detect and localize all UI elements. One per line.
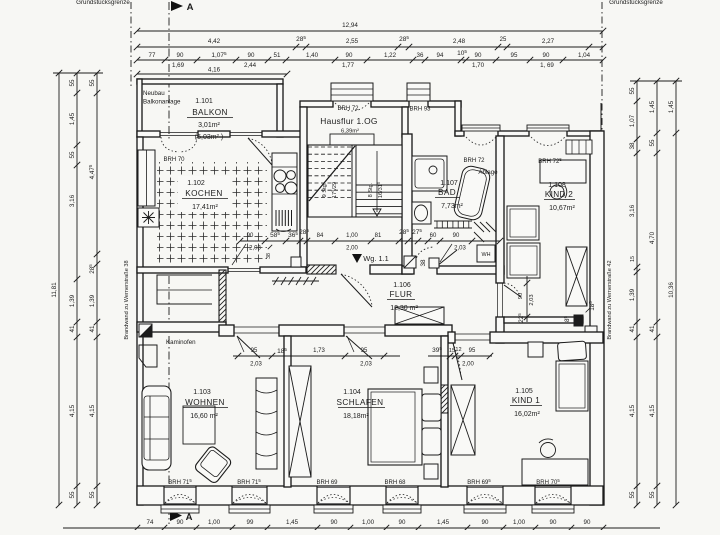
bad washing machine ticks (474, 222, 484, 232)
svg-text:1, 69: 1, 69 (540, 62, 554, 69)
svg-text:A: A (186, 512, 193, 523)
shaft box with diagonal (404, 256, 416, 268)
svg-text:1.105: 1.105 (515, 388, 533, 395)
svg-text:12,94: 12,94 (342, 22, 358, 29)
svg-text:55: 55 (649, 139, 656, 147)
svg-text:BRH 725: BRH 725 (538, 157, 562, 165)
svg-text:1,40: 1,40 (306, 52, 319, 59)
shaft box bottom right (585, 326, 597, 336)
svg-text:95: 95 (469, 348, 476, 354)
svg-text:1,69: 1,69 (172, 62, 185, 69)
balcony right wall (277, 84, 283, 137)
svg-text:2,00: 2,00 (462, 362, 474, 368)
svg-text:55: 55 (69, 79, 76, 87)
svg-text:BRH 72: BRH 72 (337, 106, 359, 112)
svg-text:Ablage: Ablage (478, 169, 498, 176)
bottom window 3 outer sill (314, 505, 353, 513)
svg-text:81: 81 (375, 233, 382, 239)
kitchen label backing (178, 176, 230, 212)
kind2 wardrobe (566, 247, 587, 306)
bottom window 4 swing arcs (387, 495, 417, 504)
right exterior wall (590, 131, 604, 505)
svg-text:74: 74 (147, 519, 154, 526)
svg-text:38: 38 (266, 253, 272, 259)
svg-text:11,81: 11,81 (51, 282, 58, 298)
svg-text:90: 90 (346, 52, 353, 59)
svg-text:90: 90 (248, 52, 255, 59)
svg-text:84: 84 (317, 233, 324, 239)
schlafen wardrobe (289, 366, 311, 477)
svg-text:9 Stg.: 9 Stg. (322, 182, 328, 197)
svg-text:3,16: 3,16 (69, 194, 76, 207)
svg-text:1.101: 1.101 (195, 98, 213, 105)
svg-text:1.107: 1.107 (440, 180, 458, 187)
bad bottom wall segment 2 (437, 266, 504, 274)
svg-text:SCHLAFEN: SCHLAFEN (337, 398, 384, 407)
wohnen table (183, 406, 215, 444)
svg-text:41: 41 (649, 325, 656, 333)
bottom window 6 opening (535, 486, 571, 505)
svg-text:10,36: 10,36 (668, 282, 675, 298)
flur bottom wall segment 2 (279, 325, 344, 336)
flur bottom wall segment 3 (385, 325, 452, 336)
interior dimension line row (240, 240, 500, 242)
svg-text:4,15: 4,15 (89, 404, 96, 417)
svg-text:4,15: 4,15 (629, 404, 636, 417)
kind2 desk (540, 160, 586, 183)
bottom window 5 outer sill (464, 505, 506, 513)
svg-text:1.106: 1.106 (393, 282, 411, 289)
wall kitchen-hausflur (300, 107, 307, 267)
svg-text:1.108: 1.108 (548, 182, 566, 189)
hall bottom wall (137, 322, 226, 332)
svg-text:3,01m²: 3,01m² (198, 122, 220, 129)
wall hausflur-bad upper (402, 107, 408, 137)
svg-text:90: 90 (482, 519, 489, 526)
schlafen pillows (422, 394, 441, 421)
svg-text:55: 55 (629, 491, 636, 499)
flur doormat with cross (395, 307, 444, 324)
svg-text:1,39: 1,39 (89, 294, 96, 307)
svg-text:41: 41 (89, 325, 96, 333)
bottom window 3 opening (317, 486, 350, 505)
svg-text:Balkonanlage: Balkonanlage (143, 99, 181, 106)
svg-text:2,03: 2,03 (360, 362, 372, 368)
svg-text:55: 55 (89, 79, 96, 87)
svg-text:90: 90 (453, 233, 460, 239)
svg-text:Grundstücksgrenze: Grundstücksgrenze (609, 0, 663, 6)
wall hausflur-bad (402, 134, 412, 274)
svg-text:18,18m²: 18,18m² (343, 413, 369, 420)
svg-text:55: 55 (69, 151, 76, 159)
schlafen nightstand top (424, 367, 438, 383)
balcony top wall (137, 79, 283, 84)
kind1 desk (522, 459, 588, 485)
wall wohnen-schlafen (284, 336, 291, 487)
bad window sill (462, 125, 500, 131)
svg-text:BRH 695: BRH 695 (467, 478, 491, 486)
svg-text:Wg. 1.1: Wg. 1.1 (363, 254, 388, 263)
svg-text:BRH 715: BRH 715 (237, 478, 261, 486)
kind2 chair (550, 185, 564, 199)
kind1 nightstand (528, 342, 543, 357)
svg-text:1,45: 1,45 (649, 100, 656, 113)
kitchen dim backing (238, 230, 268, 252)
door threshold flur-schlafen (344, 326, 385, 328)
staircase outline (308, 145, 402, 217)
svg-text:25: 25 (500, 37, 507, 43)
shaft box 2 (429, 258, 439, 268)
bottom window 3 swing arcs (318, 495, 349, 504)
svg-text:95: 95 (361, 348, 368, 354)
svg-text:95: 95 (511, 52, 518, 59)
kaminofen symbol (139, 324, 152, 337)
svg-text:2,03: 2,03 (529, 294, 535, 305)
door threshold flur-kind1 (455, 333, 490, 335)
svg-text:BALKON: BALKON (192, 108, 228, 117)
leader bad door (440, 244, 452, 262)
left dimension chain middle (76, 73, 78, 505)
svg-text:4,16: 4,16 (208, 67, 221, 74)
svg-text:BRH 72: BRH 72 (463, 158, 485, 164)
svg-text:KOCHEN: KOCHEN (185, 189, 222, 198)
svg-text:15: 15 (630, 256, 636, 262)
svg-text:(6,03m² ): (6,03m² ) (195, 134, 223, 141)
kind1 top wall left stub (448, 332, 455, 343)
svg-text:Hausflur 1.OG: Hausflur 1.OG (320, 116, 377, 126)
svg-text:BRH 68: BRH 68 (384, 480, 406, 486)
svg-text:16,60 m²: 16,60 m² (190, 413, 218, 420)
kitchen counter (272, 153, 297, 231)
svg-text:1,00: 1,00 (346, 233, 358, 239)
svg-text:12: 12 (455, 347, 461, 353)
svg-text:90: 90 (177, 519, 184, 526)
svg-text:90: 90 (543, 52, 550, 59)
hausflur facade wall segment 3 (428, 101, 461, 107)
left dimension chain outer 11,81 (58, 73, 60, 505)
svg-text:175/29: 175/29 (330, 182, 338, 198)
svg-text:90: 90 (550, 519, 557, 526)
schlafen dresser (256, 378, 277, 469)
kind2 bottom wall (504, 317, 583, 323)
bottom window 2 outer sill (229, 505, 270, 513)
svg-text:38: 38 (629, 142, 636, 150)
bottom dimension chain (63, 527, 660, 529)
svg-text:4,15: 4,15 (69, 404, 76, 417)
svg-text:Brandwand zu Wernerstraße 42: Brandwand zu Wernerstraße 42 (607, 260, 613, 339)
wohnen armchair (194, 445, 233, 484)
svg-text:BRH 93: BRH 93 (409, 107, 431, 113)
svg-text:1,45: 1,45 (668, 100, 675, 113)
svg-text:7,73m²: 7,73m² (441, 203, 463, 210)
left exterior wall (137, 137, 143, 505)
svg-text:90: 90 (177, 52, 184, 59)
svg-text:KIND 2: KIND 2 (545, 190, 573, 199)
bottom window 2 opening (232, 486, 267, 505)
section marker A top (171, 1, 183, 11)
svg-text:BRH 70: BRH 70 (163, 157, 185, 163)
wohnen door leaf (237, 336, 260, 358)
svg-text:4,70: 4,70 (649, 231, 656, 244)
right dimension chain inner (636, 81, 638, 505)
bottom window 1 swing arcs (165, 495, 195, 504)
wohnen sofa (142, 386, 171, 470)
svg-text:2,03: 2,03 (250, 362, 262, 368)
leader kitchen door (232, 244, 246, 265)
svg-text:6,39m²: 6,39m² (341, 129, 359, 135)
bad towel radiator (434, 220, 472, 222)
svg-text:Neubau: Neubau (143, 90, 165, 97)
kitchen tile floor pattern (157, 162, 267, 264)
svg-text:41: 41 (629, 325, 636, 333)
bottom window 6 outer sill (532, 505, 574, 513)
hausflur window bay B (407, 83, 430, 101)
stair entry wall hatched (307, 265, 336, 274)
svg-text:FLUR: FLUR (390, 290, 413, 299)
svg-text:41: 41 (69, 325, 76, 333)
door dims flur-kind1 (428, 355, 492, 357)
svg-text:WH: WH (482, 252, 491, 258)
bottom exterior wall (137, 486, 603, 505)
kind2 bottom wall stub filled (574, 315, 583, 326)
property boundary line right (601, 2, 603, 133)
svg-text:55: 55 (69, 491, 76, 499)
svg-text:1,73: 1,73 (313, 348, 325, 354)
balcony door 2 leaf (248, 138, 272, 165)
svg-text:BAD: BAD (438, 188, 456, 197)
svg-text:90: 90 (518, 293, 524, 299)
stair upper landing outline (330, 134, 374, 147)
bad shower (412, 156, 447, 191)
svg-text:99: 99 (247, 519, 254, 526)
right dimension chain outer 10,36 (675, 81, 677, 505)
svg-text:94: 94 (437, 52, 444, 59)
svg-text:90: 90 (331, 519, 338, 526)
svg-text:1,45: 1,45 (69, 112, 76, 125)
kind2 door leaf (504, 285, 521, 297)
left dimension top connector (53, 72, 103, 74)
facade step wall right of hausflur (455, 101, 461, 136)
svg-text:1,00: 1,00 (362, 519, 375, 526)
section line A-A vertical (168, 2, 170, 140)
door dims flur-wohnen (233, 355, 292, 357)
staircase right flight treads (356, 184, 402, 186)
staircase left flight dashed treads (308, 146, 352, 148)
flur bottom wall segment 1 (219, 325, 234, 336)
svg-text:36: 36 (417, 52, 424, 59)
right facade wall segment 1 (455, 131, 464, 136)
svg-text:1.103: 1.103 (193, 389, 211, 396)
hall closet (157, 275, 212, 304)
svg-text:1,00: 1,00 (208, 519, 221, 526)
schlafen nightstand bottom (424, 464, 438, 479)
kind1 door leaf (453, 343, 462, 380)
svg-text:4,42: 4,42 (208, 38, 221, 45)
svg-text:55: 55 (89, 491, 96, 499)
kind1 wardrobe (451, 385, 475, 455)
right exterior wall upper thin (600, 103, 602, 133)
svg-text:BRH 715: BRH 715 (168, 478, 192, 486)
kitchen left closet (138, 150, 155, 206)
kind1 top wall (490, 332, 603, 343)
door dims flur-schlafen (292, 355, 400, 357)
kitchen radiator (275, 210, 277, 226)
svg-text:2,55: 2,55 (346, 38, 359, 45)
svg-text:90: 90 (399, 519, 406, 526)
svg-text:BRH 69: BRH 69 (316, 480, 338, 486)
kitchen shaft box (291, 257, 301, 267)
svg-text:10,67m²: 10,67m² (549, 205, 575, 212)
svg-text:4,15: 4,15 (649, 404, 656, 417)
kind1 bed (556, 361, 588, 411)
bad bathtub (453, 165, 492, 222)
svg-text:1,77: 1,77 (342, 62, 355, 69)
svg-text:1,39: 1,39 (69, 294, 76, 307)
svg-text:1,22: 1,22 (384, 52, 397, 59)
staircase center rail (351, 145, 353, 217)
right dimension chain middle (656, 81, 658, 505)
svg-text:60: 60 (430, 233, 437, 239)
kind2 bed (507, 206, 539, 240)
kaminofen chimney (139, 345, 157, 367)
svg-text:1,45: 1,45 (437, 519, 450, 526)
svg-text:Brandwand zu Wernerstraße 38: Brandwand zu Wernerstraße 38 (124, 260, 130, 339)
svg-text:8 Stg.: 8 Stg. (368, 182, 374, 197)
kitchen bottom wall segment 1 (137, 267, 228, 273)
kitchen facade wall segment 2 (198, 131, 230, 137)
bad sink (412, 202, 431, 224)
wall bad-kind2 (496, 136, 504, 283)
bad window swing arc (466, 137, 496, 145)
door threshold flur-wohnen (234, 326, 279, 328)
bottom window 5 swing arcs (468, 495, 502, 504)
svg-text:2,00: 2,00 (346, 246, 358, 252)
kitchen door opening frame lines (228, 268, 260, 270)
svg-text:16,02m²: 16,02m² (514, 411, 540, 418)
top dimension line overall 12,94 (137, 30, 603, 32)
svg-text:BRH 705: BRH 705 (536, 478, 560, 486)
svg-text:38: 38 (420, 259, 427, 267)
balcony door opening 2 frame lines (230, 132, 262, 134)
wall bad-kind2 lower part (496, 317, 504, 343)
bottom window 6 swing arcs (536, 495, 570, 504)
kind2 window sill (527, 125, 569, 131)
balcony door opening 1 frame lines (160, 132, 198, 134)
svg-text:1,39: 1,39 (629, 288, 636, 301)
apartment entry label Wg 1.1 (352, 254, 362, 263)
svg-text:1.102: 1.102 (187, 180, 205, 187)
balcony left wall (137, 79, 142, 137)
svg-text:17,41m²: 17,41m² (192, 204, 218, 211)
bottom window 4 outer sill (383, 505, 421, 513)
kitchen stove circles (274, 170, 286, 182)
svg-text:1,70: 1,70 (472, 62, 485, 69)
svg-text:90: 90 (475, 52, 482, 59)
hausflur facade wall segment 1 (300, 101, 333, 107)
hausflur facade wall segment 2 (371, 101, 409, 107)
kitchen gas symbol box (138, 208, 159, 227)
bottom window 1 opening (164, 486, 196, 505)
staircase walk line with arrow (376, 151, 378, 212)
svg-text:A: A (187, 2, 194, 13)
svg-text:1,07: 1,07 (629, 114, 636, 127)
top dimension line 3 (137, 59, 603, 61)
svg-text:Grundstücksgrenze: Grundstücksgrenze (76, 0, 130, 6)
flur coat rack (272, 280, 319, 282)
svg-text:51: 51 (274, 52, 281, 59)
bottom window 2 swing arcs (233, 495, 266, 504)
bad door leaf and arc (415, 247, 433, 265)
kind2 door threshold lines (497, 283, 499, 317)
right facade wall segment 2 (498, 131, 529, 136)
svg-text:1,45: 1,45 (286, 519, 299, 526)
svg-text:1,04: 1,04 (578, 52, 591, 59)
svg-text:KIND 1: KIND 1 (512, 396, 540, 405)
svg-text:77: 77 (149, 52, 156, 59)
wall schlafen-kind1 hatched part (441, 385, 448, 413)
svg-text:12,30 m²: 12,30 m² (390, 305, 418, 312)
bad bottom wall segment 1 (402, 266, 414, 274)
top dimension line 2 (137, 46, 603, 48)
kitchen facade wall segment 1 (137, 131, 160, 137)
hausflur window A swing arc (335, 103, 369, 111)
stair entry wall right part (370, 265, 402, 274)
hausflur window bay A (331, 83, 373, 101)
schlafen bed (368, 389, 422, 465)
right facade wall segment 3 (567, 131, 603, 136)
bottom window 5 opening (467, 486, 503, 505)
wall schlafen-kind1 (441, 336, 448, 487)
bottom window 4 opening (386, 486, 418, 505)
balcony door 1 swing arcs (161, 137, 179, 152)
svg-text:1,00: 1,00 (513, 519, 526, 526)
right dimension top connector (630, 80, 682, 82)
kitchen facade wall segment 3 (262, 131, 306, 137)
svg-text:3,16: 3,16 (629, 204, 636, 217)
kitchen bottom wall segment 2 (260, 267, 306, 273)
svg-text:55: 55 (629, 87, 636, 95)
property boundary line left (130, 2, 132, 86)
left dimension chain inner (96, 73, 98, 505)
kind2 door dims rotated (526, 276, 528, 322)
svg-text:55: 55 (649, 491, 656, 499)
kind2 window swing arc (531, 137, 565, 146)
svg-text:2,48: 2,48 (453, 38, 466, 45)
svg-text:1.104: 1.104 (343, 389, 361, 396)
entry door leaf (341, 274, 372, 307)
kind1 chair (541, 443, 556, 458)
kind2 radiator under window (566, 140, 592, 154)
bottom window 1 outer sill (161, 505, 199, 513)
new wall flur-hall hatched (219, 270, 226, 332)
svg-text:WOHNEN: WOHNEN (185, 398, 225, 407)
staircase break line diagonal (309, 146, 355, 201)
section marker A bottom (170, 510, 182, 521)
svg-text:2,44: 2,44 (244, 62, 257, 69)
schlafen door leaf (346, 336, 372, 359)
svg-text:90: 90 (584, 519, 591, 526)
svg-text:2,27: 2,27 (542, 38, 555, 45)
svg-text:Kaminofen: Kaminofen (166, 339, 196, 346)
boiler WH box (477, 245, 495, 262)
top dimension line 4,16 (137, 73, 287, 75)
kind1 bed pillow (557, 341, 586, 361)
